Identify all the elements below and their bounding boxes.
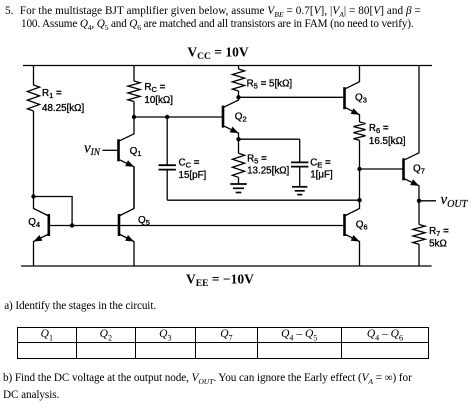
ground below CE bbox=[292, 187, 307, 195]
label Q2 bbox=[235, 111, 247, 123]
vIN label bbox=[84, 140, 101, 158]
vOUT label bbox=[441, 192, 469, 210]
wire: vOUT stub bbox=[419, 200, 436, 202]
node: R1 bottom / Q4 collector bbox=[31, 194, 35, 198]
transistor Q3 bbox=[345, 66, 360, 123]
label Q7 bbox=[413, 164, 425, 176]
wire: node to Q7 base bbox=[360, 168, 404, 170]
svg-text:R7 =: R7 = bbox=[429, 226, 449, 238]
svg-text:VCC = 10V: VCC = 10V bbox=[187, 44, 248, 62]
label RC value bbox=[144, 82, 173, 106]
svg-text:Q2: Q2 bbox=[235, 111, 247, 123]
label CC value bbox=[179, 157, 207, 181]
wire: Q2 collector node to Q3 base bbox=[239, 96, 345, 98]
resistor R1 bbox=[27, 66, 39, 197]
label Q5 bbox=[138, 215, 150, 227]
svg-text:Q5: Q5 bbox=[138, 215, 150, 227]
resistor R7 bbox=[413, 201, 425, 266]
wire: VCC top rail bbox=[23, 65, 432, 67]
resistor R5b (13.25k) bbox=[232, 139, 244, 184]
wire: RC bottom to Q2 base bbox=[134, 116, 223, 118]
svg-text:Q3: Q3 bbox=[355, 92, 367, 104]
capacitor CC bbox=[159, 117, 176, 200]
node: CC tap bbox=[165, 115, 169, 119]
svg-text:CE =: CE = bbox=[310, 157, 331, 169]
svg-text:Q1: Q1 bbox=[130, 146, 142, 158]
svg-text:1[μF]: 1[μF] bbox=[310, 170, 333, 181]
label Q4 bbox=[28, 217, 40, 229]
wire: CC bottom to Q7 base node bbox=[167, 199, 359, 201]
node: Q2 emitter bbox=[236, 137, 240, 141]
svg-text:10[kΩ]: 10[kΩ] bbox=[144, 95, 173, 106]
label R6 value bbox=[369, 123, 406, 147]
transistor Q7 bbox=[404, 66, 420, 201]
svg-text:Q7: Q7 bbox=[413, 164, 425, 176]
svg-text:R6 =: R6 = bbox=[369, 123, 389, 135]
label Q3 bbox=[355, 92, 367, 104]
wire: Q4 diode link bbox=[34, 197, 73, 226]
VEE label bbox=[186, 272, 254, 290]
transistor Q1 bbox=[103, 117, 135, 209]
transistor Q5 bbox=[119, 167, 134, 266]
node: vOUT bbox=[417, 199, 421, 203]
label Q1 bbox=[130, 146, 142, 158]
transistor Q6 bbox=[345, 200, 360, 266]
transistor Q4 bbox=[34, 197, 49, 267]
wire: Q2 emitter to CE bbox=[239, 138, 300, 140]
part a) caption bbox=[4, 300, 156, 312]
svg-text:Q6: Q6 bbox=[356, 219, 368, 231]
svg-text:RC =: RC = bbox=[144, 82, 165, 94]
svg-text:vIN: vIN bbox=[84, 140, 101, 158]
ground below R5b bbox=[230, 184, 247, 193]
label Q6 bbox=[356, 219, 368, 231]
svg-text:vOUT: vOUT bbox=[441, 192, 469, 210]
label CE value bbox=[310, 157, 333, 180]
wire: base bus Q4-Q5-Q6 bbox=[49, 225, 345, 227]
svg-text:5kΩ: 5kΩ bbox=[429, 239, 447, 250]
label R1 value bbox=[42, 88, 84, 114]
stages table bbox=[17, 327, 429, 359]
svg-text:R1 =: R1 = bbox=[42, 88, 62, 100]
VCC label bbox=[187, 44, 248, 62]
node: RC / Q1 collector / Q2 base bbox=[132, 115, 136, 119]
svg-text:15[pF]: 15[pF] bbox=[179, 170, 207, 181]
capacitor CE bbox=[291, 139, 308, 187]
svg-text:16.5[kΩ]: 16.5[kΩ] bbox=[369, 136, 406, 147]
svg-text:CC =: CC = bbox=[179, 157, 200, 169]
label R5 value bbox=[247, 78, 293, 90]
resistor R6 bbox=[353, 122, 365, 169]
svg-text:48.25[kΩ]: 48.25[kΩ] bbox=[42, 103, 84, 114]
node: R5 bottom / Q2 collector / Q3 base bbox=[236, 95, 240, 99]
svg-text:R5 = 5[kΩ]: R5 = 5[kΩ] bbox=[247, 78, 293, 90]
node: Q6 collector / CC wire bbox=[357, 198, 361, 202]
label R7 value bbox=[429, 226, 449, 249]
resistor R5 (5k) bbox=[232, 66, 244, 98]
circuit schematic bbox=[0, 0, 474, 300]
svg-text:R5 =: R5 = bbox=[247, 154, 267, 166]
node: diode link to base bus bbox=[70, 223, 74, 227]
svg-text:Q4: Q4 bbox=[28, 217, 40, 229]
part b) caption bbox=[3, 372, 412, 401]
node: R6 bottom / Q7 base bbox=[357, 167, 361, 171]
transistor Q2 bbox=[223, 97, 239, 139]
label R5b value bbox=[247, 154, 289, 177]
wire: VEE bottom rail bbox=[21, 265, 432, 267]
svg-text:13.25[kΩ]: 13.25[kΩ] bbox=[247, 166, 289, 177]
heading paragraph bbox=[0, 0, 1, 1]
resistor RC bbox=[128, 66, 140, 118]
svg-text:VEE = −10V: VEE = −10V bbox=[186, 272, 254, 290]
wire: node down to Q6 collector node bbox=[359, 169, 361, 200]
